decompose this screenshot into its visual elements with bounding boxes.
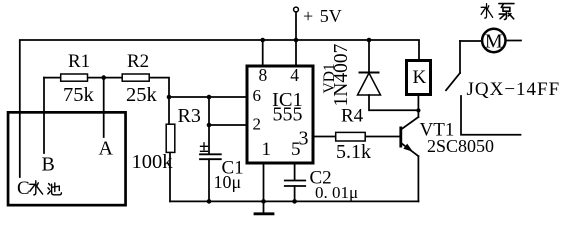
svg-text:+5V: +5V (303, 6, 342, 26)
svg-text:R3: R3 (178, 105, 201, 127)
svg-text:75k: 75k (63, 84, 95, 106)
svg-text:555: 555 (273, 104, 303, 126)
svg-text:2SC8050: 2SC8050 (427, 136, 494, 156)
svg-text:6: 6 (253, 86, 262, 105)
svg-text:B: B (42, 154, 55, 176)
svg-text:C: C (17, 178, 30, 199)
svg-text:25k: 25k (126, 84, 158, 106)
svg-text:8: 8 (259, 65, 268, 85)
svg-text:1N4007: 1N4007 (331, 43, 352, 106)
svg-text:2: 2 (253, 115, 262, 134)
svg-text:R4: R4 (341, 106, 364, 127)
svg-text:5.1k: 5.1k (336, 141, 371, 163)
svg-text:10μ: 10μ (214, 172, 242, 192)
svg-text:JQX−14FF: JQX−14FF (467, 79, 561, 100)
svg-text:A: A (99, 138, 114, 160)
svg-text:0. 01μ: 0. 01μ (315, 183, 358, 202)
svg-text:R2: R2 (127, 51, 149, 72)
svg-text:K: K (413, 67, 427, 88)
svg-text:100k: 100k (132, 151, 174, 173)
svg-text:M: M (485, 31, 503, 53)
svg-text:5: 5 (291, 139, 301, 160)
svg-text:4: 4 (290, 65, 299, 85)
svg-text:1: 1 (262, 139, 272, 160)
svg-text:R1: R1 (68, 51, 90, 72)
